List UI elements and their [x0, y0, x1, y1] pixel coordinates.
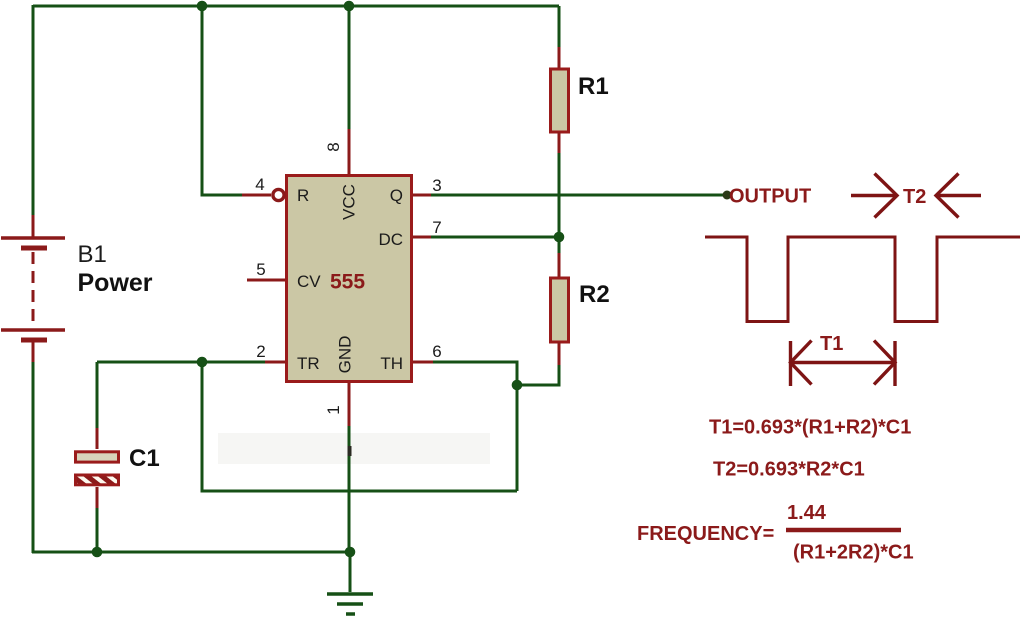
- svg-text:8: 8: [324, 142, 343, 151]
- node junction top vcc: [344, 1, 355, 12]
- svg-text:4: 4: [255, 175, 264, 194]
- svg-text:R2: R2: [579, 281, 610, 308]
- svg-text:R: R: [297, 186, 309, 205]
- svg-text:OUTPUT: OUTPUT: [729, 186, 811, 208]
- pin 1 lead: [348, 383, 351, 426]
- pin 2 lead: [265, 361, 285, 364]
- wire C1 bottom lead: [96, 508, 99, 553]
- pin 6 lead: [413, 361, 433, 364]
- svg-text:1.44: 1.44: [787, 502, 827, 524]
- wire top rail: [33, 5, 559, 8]
- svg-text:TH: TH: [380, 354, 403, 373]
- label C1: [129, 445, 160, 472]
- svg-text:T1=0.693*(R1+R2)*C1: T1=0.693*(R1+R2)*C1: [709, 417, 911, 439]
- svg-text:555: 555: [330, 271, 365, 294]
- node junction top left: [197, 1, 208, 12]
- node junction C1 bottom: [92, 547, 103, 558]
- T1 dimension arrow: [791, 341, 896, 387]
- label R2: [579, 281, 610, 308]
- pin name R: [297, 186, 309, 205]
- svg-text:DC: DC: [378, 230, 403, 249]
- svg-text:(R1+2R2)*C1: (R1+2R2)*C1: [793, 542, 914, 564]
- pin number 5: [256, 260, 265, 279]
- wire ground stem: [349, 552, 352, 592]
- wire left rail upper: [32, 5, 35, 215]
- pin 4 lead: [242, 194, 271, 197]
- node junction TR: [197, 357, 208, 368]
- label T2: [903, 186, 926, 208]
- svg-text:CV: CV: [297, 272, 321, 291]
- svg-text:7: 7: [432, 218, 441, 237]
- svg-text:1: 1: [324, 405, 343, 414]
- pin 7 lead: [413, 236, 431, 239]
- pin name Q: [390, 186, 403, 205]
- wire reset branch: [202, 6, 242, 195]
- pin name TR: [297, 354, 320, 373]
- pin 4 inversion bubble: [273, 189, 284, 200]
- output waveform: [705, 237, 1020, 322]
- label B1: [78, 241, 107, 268]
- wire C1 top lead: [96, 362, 99, 428]
- capacitor C1: [76, 428, 119, 508]
- svg-text:T2: T2: [903, 186, 926, 208]
- svg-text:6: 6: [432, 342, 441, 361]
- wire TR branch: [97, 361, 265, 364]
- pin name CV: [297, 272, 321, 291]
- svg-text:C1: C1: [129, 445, 160, 472]
- wire TR loop down: [202, 362, 517, 491]
- label R1: [578, 73, 609, 100]
- wire bottom rail: [32, 551, 350, 554]
- svg-text:R1: R1: [578, 73, 609, 100]
- label T1: [820, 333, 843, 355]
- pin number 8: [324, 142, 343, 151]
- ground: [327, 594, 373, 614]
- pin number 6: [432, 342, 441, 361]
- svg-text:FREQUENCY=: FREQUENCY=: [637, 523, 774, 545]
- svg-text:T2=0.693*R2*C1: T2=0.693*R2*C1: [713, 459, 865, 481]
- pin name GND: [335, 336, 354, 374]
- label Power: [78, 269, 153, 297]
- node junction divider mid: [554, 232, 565, 243]
- wire R1 top feed: [558, 6, 561, 47]
- formula numerator 1.44: [787, 502, 827, 524]
- svg-text:Q: Q: [390, 186, 403, 205]
- svg-text:GND: GND: [335, 336, 354, 374]
- pin number 3: [432, 176, 441, 195]
- T2 arrow left: [936, 174, 981, 218]
- pin name TH: [380, 354, 403, 373]
- svg-text:TR: TR: [297, 354, 320, 373]
- resistor R2: [551, 253, 569, 365]
- wire R2 bottom link: [517, 365, 559, 385]
- pin name DC: [378, 230, 403, 249]
- label OUTPUT: [729, 186, 811, 208]
- wire Q output: [430, 194, 727, 197]
- svg-text:5: 5: [256, 260, 265, 279]
- svg-text:VCC: VCC: [339, 184, 358, 220]
- erased label band: [218, 433, 490, 464]
- svg-text:2: 2: [256, 342, 265, 361]
- formula T1: [709, 417, 911, 439]
- T2 arrow right: [851, 174, 897, 218]
- formula fraction bar: [786, 528, 901, 533]
- svg-text:3: 3: [432, 176, 441, 195]
- value 555: [330, 271, 365, 294]
- pin number 4: [255, 175, 264, 194]
- battery B1: [1, 215, 65, 362]
- formula frequency label: [637, 523, 774, 545]
- wire pin1 to ground: [348, 426, 351, 552]
- pin number 1: [324, 405, 343, 414]
- pin 3 lead: [413, 194, 431, 197]
- pin 8 lead: [348, 129, 351, 174]
- wire R1-R2 mid: [558, 153, 561, 253]
- pin 5 lead: [247, 279, 285, 282]
- pin number 7: [432, 218, 441, 237]
- pin name VCC: [339, 184, 358, 220]
- node output terminal: [723, 191, 732, 200]
- wire left rail lower: [32, 361, 35, 553]
- wire remnant mark: [348, 446, 352, 456]
- formula denominator: [793, 542, 914, 564]
- node junction ground: [345, 547, 356, 558]
- svg-text:B1: B1: [78, 241, 107, 268]
- op-amp U1 555 timer body: [287, 176, 412, 382]
- wire TH branch: [432, 362, 517, 491]
- formula T2: [713, 459, 865, 481]
- svg-text:T1: T1: [820, 333, 843, 355]
- pin number 2: [256, 342, 265, 361]
- wire DC to divider: [430, 236, 559, 239]
- wire vcc drop to pin 8: [348, 6, 351, 129]
- svg-text:Power: Power: [78, 269, 153, 297]
- node junction TH corner: [512, 380, 523, 391]
- resistor R1: [551, 47, 569, 153]
